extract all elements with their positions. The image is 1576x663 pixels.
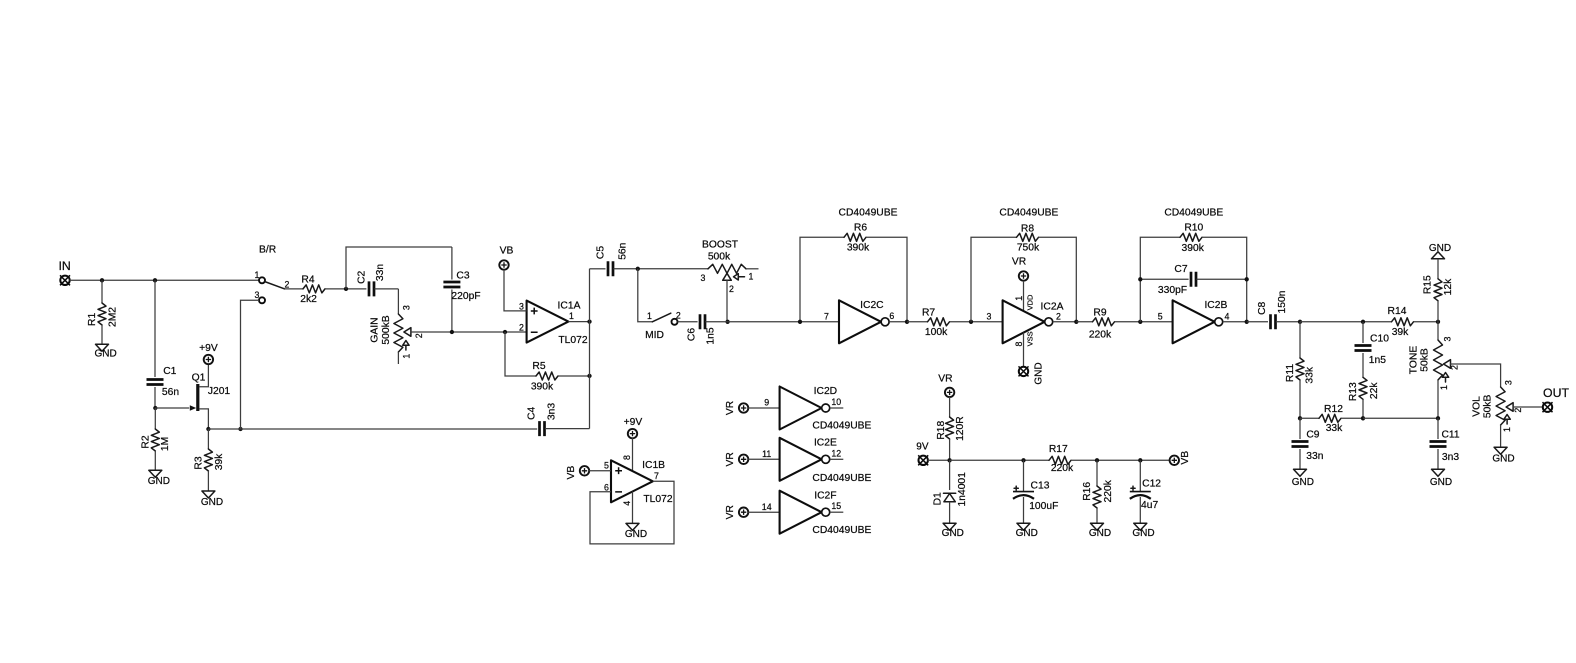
svg-text:GND: GND — [1033, 362, 1044, 384]
wire VSS — [1023, 333, 1025, 367]
svg-text:500kB: 500kB — [381, 315, 392, 344]
resistor R3 39k — [207, 429, 209, 449]
svg-text:3: 3 — [519, 302, 524, 312]
ground under C13 — [1017, 523, 1030, 530]
svg-text:120R: 120R — [955, 416, 966, 441]
ground under R16 — [1091, 523, 1104, 530]
node junction C3/wiper — [450, 330, 454, 334]
wire output riser — [589, 269, 591, 429]
potentiometer BOOST 500k — [708, 264, 746, 273]
capacitor C6 1n5 — [678, 321, 698, 323]
svg-text:39k: 39k — [214, 453, 225, 470]
svg-text:14: 14 — [762, 502, 772, 512]
svg-text:B/R: B/R — [259, 245, 276, 256]
resistor R9 220k — [1076, 321, 1092, 323]
resistor R18 120R — [946, 417, 954, 439]
ground under C12 — [1134, 523, 1147, 530]
svg-text:1n4001: 1n4001 — [957, 472, 968, 507]
capacitor C11 3n3 — [1437, 418, 1439, 439]
svg-text:2: 2 — [414, 333, 424, 338]
svg-text:500k: 500k — [708, 251, 731, 262]
node junction IC2A out — [1074, 320, 1078, 324]
node junction IC2A in — [969, 320, 973, 324]
node junction C10 top — [1361, 320, 1365, 324]
capacitor C5 56n — [608, 261, 613, 276]
node junction C12 — [1138, 458, 1142, 462]
node junction IC1A out — [587, 319, 591, 323]
svg-text:IN: IN — [58, 259, 70, 273]
wire R5 branch — [505, 332, 536, 376]
svg-text:VR: VR — [725, 401, 736, 415]
svg-text:GND: GND — [201, 497, 223, 508]
svg-text:GND: GND — [1430, 477, 1452, 488]
node junction R4/C2 — [344, 287, 348, 291]
node junction R5 right — [587, 374, 591, 378]
capacitor C7 330pF — [1140, 278, 1188, 280]
svg-text:33k: 33k — [1304, 366, 1315, 383]
svg-text:VB: VB — [1180, 451, 1191, 465]
node junction IC2B out — [1245, 320, 1249, 324]
svg-text:GND: GND — [1089, 528, 1111, 539]
wire rail to R17 — [950, 459, 1049, 461]
svg-text:J201: J201 — [208, 386, 231, 397]
svg-text:1M: 1M — [160, 437, 171, 451]
svg-text:R4: R4 — [301, 274, 314, 285]
svg-text:VOL: VOL — [1471, 396, 1482, 417]
svg-text:3n3: 3n3 — [546, 403, 557, 420]
svg-text:33n: 33n — [375, 264, 386, 281]
wire VR to IC2D — [748, 407, 779, 409]
svg-text:4: 4 — [622, 501, 632, 506]
svg-text:TL072: TL072 — [558, 335, 587, 346]
svg-text:50kB: 50kB — [1483, 395, 1494, 419]
capacitor C13 100uF — [1023, 460, 1025, 491]
switch MID — [652, 313, 671, 322]
node junction R16 — [1095, 458, 1099, 462]
svg-text:C12: C12 — [1142, 479, 1161, 490]
capacitor C8 150n — [1247, 321, 1268, 323]
svg-text:R15: R15 — [1423, 275, 1434, 294]
wire bottom tone row — [1363, 417, 1438, 419]
op-amp IC1B TL072 — [611, 460, 653, 502]
node junction B/R-3 tie — [238, 427, 242, 431]
resistor R2 1M — [154, 408, 156, 429]
node junction at R1 — [100, 278, 104, 282]
resistor R16 220k — [1096, 460, 1098, 486]
svg-text:750k: 750k — [1017, 243, 1040, 254]
svg-text:CD4049UBE: CD4049UBE — [1164, 208, 1223, 219]
svg-text:GND: GND — [942, 528, 964, 539]
svg-text:C7: C7 — [1174, 264, 1187, 275]
wire B/R throw3 riser — [241, 300, 260, 429]
svg-text:1: 1 — [569, 311, 574, 321]
svg-text:BOOST: BOOST — [702, 240, 739, 251]
svg-text:2: 2 — [729, 284, 734, 294]
inverter IC2E — [780, 438, 822, 481]
wire VR to R18 — [949, 397, 951, 417]
svg-text:1n5: 1n5 — [1369, 355, 1386, 366]
svg-text:VB: VB — [500, 245, 514, 256]
svg-text:C9: C9 — [1306, 430, 1319, 441]
node junction C7 left — [1138, 277, 1142, 281]
svg-text:3: 3 — [1504, 380, 1514, 385]
svg-text:2: 2 — [676, 310, 681, 320]
svg-text:GND: GND — [148, 476, 170, 487]
supply +9V at Q1 — [204, 355, 213, 364]
svg-text:R2: R2 — [140, 435, 151, 448]
wire feedback top line — [346, 247, 452, 289]
capacitor C9 33n — [1299, 418, 1301, 439]
capacitor C2 33n — [369, 281, 374, 296]
resistor R8 750k feedback — [971, 237, 1017, 321]
transistor Q1 J201 — [196, 384, 199, 411]
svg-text:1: 1 — [402, 354, 412, 359]
svg-text:R3: R3 — [194, 456, 205, 469]
node junction at C1 — [153, 278, 157, 282]
ground under D1 — [943, 523, 956, 530]
svg-text:IC2D: IC2D — [814, 386, 837, 397]
svg-text:2: 2 — [1056, 311, 1061, 321]
node junction tone top — [1436, 320, 1440, 324]
potentiometer TONE 50kB — [1437, 322, 1439, 340]
svg-text:+9V: +9V — [624, 417, 643, 428]
wire VB to pin3 — [504, 270, 527, 311]
node junction IC2C out — [905, 320, 909, 324]
svg-text:IC2C: IC2C — [860, 300, 884, 311]
wire to C5 — [590, 268, 606, 270]
svg-text:220k: 220k — [1089, 329, 1112, 340]
node VB port right — [1170, 456, 1179, 465]
wire 9V to rail — [928, 459, 950, 461]
svg-text:C4: C4 — [527, 406, 538, 419]
wire VOL wiper to OUT — [1513, 406, 1544, 408]
wire lever to R4 — [285, 288, 303, 290]
svg-text:2: 2 — [285, 280, 290, 290]
wire C2 to GAIN — [397, 289, 399, 314]
resistor R13 22k — [1359, 377, 1367, 399]
svg-text:100k: 100k — [925, 327, 948, 338]
svg-text:R14: R14 — [1388, 306, 1407, 317]
svg-text:220k: 220k — [1103, 479, 1114, 502]
svg-text:390k: 390k — [847, 243, 870, 254]
svg-text:3: 3 — [402, 305, 412, 310]
svg-text:IC2B: IC2B — [1204, 300, 1227, 311]
svg-text:CD4049UBE: CD4049UBE — [812, 421, 871, 432]
wire GAIN wiper row — [410, 331, 526, 333]
svg-text:R12: R12 — [1324, 404, 1343, 415]
svg-text:220pF: 220pF — [451, 291, 480, 302]
svg-text:D1: D1 — [933, 492, 944, 505]
node junction 9V/D1 — [947, 458, 951, 462]
svg-text:100uF: 100uF — [1029, 501, 1058, 512]
svg-text:8: 8 — [1014, 341, 1024, 346]
svg-text:4: 4 — [1224, 311, 1229, 321]
svg-text:MID: MID — [645, 330, 664, 341]
svg-text:R11: R11 — [1285, 364, 1296, 382]
svg-text:VDD: VDD — [1025, 294, 1034, 310]
svg-text:GND: GND — [625, 529, 647, 540]
svg-text:C11: C11 — [1441, 429, 1459, 440]
svg-text:VR: VR — [725, 452, 736, 466]
svg-text:C8: C8 — [1257, 301, 1268, 314]
wire IC1B feedback box — [590, 481, 674, 544]
wire IC1A output — [568, 321, 589, 323]
svg-text:2M2: 2M2 — [108, 307, 119, 327]
ground pad at IC2A — [1019, 367, 1028, 376]
svg-text:330pF: 330pF — [1158, 285, 1187, 296]
svg-text:9: 9 — [764, 398, 769, 408]
resistor R15 12k — [1437, 259, 1439, 279]
node junction C7 right — [1245, 277, 1249, 281]
svg-text:IC2A: IC2A — [1041, 302, 1064, 313]
svg-text:R18: R18 — [936, 420, 947, 439]
svg-text:5: 5 — [1158, 311, 1163, 321]
node junction gate — [153, 406, 157, 410]
svg-text:R1: R1 — [87, 313, 98, 326]
resistor R11 33k — [1299, 322, 1301, 358]
svg-text:50kB: 50kB — [1420, 348, 1431, 372]
node junction BOOST wiper — [725, 320, 729, 324]
node junction R13 bottom — [1361, 416, 1365, 420]
node junction C8 right — [1298, 320, 1302, 324]
svg-text:VR: VR — [725, 505, 736, 519]
svg-text:R9: R9 — [1093, 307, 1106, 318]
supply +9V at IC1B — [628, 429, 637, 438]
svg-text:GND: GND — [1016, 528, 1038, 539]
svg-text:7: 7 — [654, 471, 659, 481]
resistor R1 2M2 — [101, 280, 103, 303]
node junction R11 bottom — [1298, 416, 1302, 420]
svg-text:2: 2 — [1513, 408, 1523, 413]
svg-text:1: 1 — [749, 272, 754, 282]
svg-text:390k: 390k — [531, 382, 554, 393]
capacitor C3 220pF — [451, 247, 453, 280]
svg-text:CD4049UBE: CD4049UBE — [839, 207, 898, 218]
svg-text:56n: 56n — [617, 242, 628, 259]
inverter IC2C — [839, 300, 881, 343]
resistor R4 2k2 — [303, 285, 325, 293]
resistor R7 100k — [907, 321, 928, 323]
node junction inverting input — [503, 330, 507, 334]
svg-text:2k2: 2k2 — [300, 294, 317, 305]
wire VB to pin5 — [589, 470, 611, 472]
wire IN row — [69, 279, 259, 281]
svg-text:6: 6 — [889, 311, 894, 321]
svg-text:IC2F: IC2F — [814, 490, 836, 501]
svg-text:GAIN: GAIN — [370, 317, 381, 342]
svg-text:5: 5 — [604, 461, 609, 471]
node junction IC2C in — [798, 320, 802, 324]
node junction IC2B in — [1138, 320, 1142, 324]
wire top right row — [1300, 321, 1392, 323]
svg-text:CD4049UBE: CD4049UBE — [999, 208, 1058, 219]
svg-text:C10: C10 — [1370, 334, 1389, 345]
svg-text:3: 3 — [701, 273, 706, 283]
svg-text:CD4049UBE: CD4049UBE — [812, 473, 871, 484]
inverter IC2D — [780, 387, 822, 430]
ground above R15 — [1432, 252, 1445, 259]
ground under R1 — [96, 344, 109, 351]
svg-text:12k: 12k — [1443, 278, 1454, 295]
svg-text:15: 15 — [831, 501, 841, 511]
svg-text:VR: VR — [1012, 257, 1026, 268]
svg-text:8: 8 — [622, 455, 632, 460]
svg-text:+9V: +9V — [199, 343, 218, 354]
svg-text:150n: 150n — [1277, 290, 1288, 313]
wire pin4 — [632, 492, 634, 524]
svg-text:R16: R16 — [1082, 482, 1093, 501]
resistor R10 390k feedback — [1140, 237, 1180, 321]
capacitor C12 4u7 — [1139, 460, 1141, 491]
svg-text:TONE: TONE — [1408, 346, 1419, 375]
svg-text:4u7: 4u7 — [1141, 500, 1158, 511]
svg-text:7: 7 — [824, 311, 829, 321]
svg-text:R13: R13 — [1348, 382, 1359, 401]
svg-text:GND: GND — [1132, 528, 1154, 539]
svg-text:220k: 220k — [1051, 463, 1074, 474]
wire source row — [208, 428, 537, 430]
svg-text:IC1A: IC1A — [558, 301, 581, 312]
ground under VOL — [1494, 447, 1507, 454]
wire gate — [155, 407, 189, 409]
ground under C11 — [1432, 469, 1445, 476]
svg-text:GND: GND — [1292, 477, 1314, 488]
svg-text:1: 1 — [255, 270, 260, 280]
svg-text:33k: 33k — [1326, 423, 1343, 434]
node junction tone bottom — [1436, 416, 1440, 420]
svg-text:22k: 22k — [1369, 382, 1380, 399]
node junction C5 right — [636, 267, 640, 271]
wire MID drop — [638, 269, 653, 322]
svg-text:CD4049UBE: CD4049UBE — [812, 525, 871, 536]
wire VDD — [1023, 281, 1025, 312]
node IN port — [60, 276, 69, 285]
svg-text:R5: R5 — [532, 361, 545, 372]
resistor R17 220k — [1049, 456, 1071, 464]
inverter IC2F — [780, 491, 822, 534]
diode D1 1n4001 — [949, 460, 951, 490]
ground under R3 — [202, 491, 215, 498]
potentiometer VOL 50kB — [1496, 387, 1505, 425]
wire VR to IC2F — [748, 511, 779, 513]
svg-text:C1: C1 — [163, 366, 176, 377]
resistor R12 33k — [1300, 417, 1319, 419]
supply VB at IC1A — [499, 260, 508, 269]
svg-text:9V: 9V — [916, 441, 929, 452]
node junction source — [206, 427, 210, 431]
svg-text:OUT: OUT — [1543, 386, 1569, 400]
svg-text:C6: C6 — [687, 328, 698, 341]
svg-text:1: 1 — [1439, 385, 1449, 390]
svg-text:1: 1 — [647, 311, 652, 321]
svg-text:R8: R8 — [1021, 223, 1034, 234]
svg-text:VSS: VSS — [1025, 331, 1034, 346]
svg-text:C2: C2 — [357, 270, 368, 283]
svg-text:C5: C5 — [595, 246, 606, 259]
op-amp IC1A TL072 — [527, 301, 569, 343]
svg-text:2: 2 — [1450, 365, 1460, 370]
svg-text:TL072: TL072 — [643, 494, 672, 505]
node OUT port — [1543, 403, 1552, 412]
svg-text:Q1: Q1 — [192, 373, 206, 384]
svg-text:GND: GND — [1429, 243, 1451, 254]
svg-text:GND: GND — [94, 349, 116, 360]
svg-text:1: 1 — [1502, 427, 1512, 432]
svg-text:R6: R6 — [854, 223, 867, 234]
svg-text:R17: R17 — [1049, 444, 1068, 455]
svg-text:33n: 33n — [1306, 451, 1323, 462]
svg-text:3: 3 — [1443, 336, 1453, 341]
wire VR to IC2E — [748, 458, 779, 460]
svg-text:IC2E: IC2E — [814, 438, 837, 449]
svg-text:R7: R7 — [922, 307, 935, 318]
capacitor C1 56n — [154, 280, 156, 377]
resistor R5 390k — [536, 372, 558, 380]
svg-text:1n5: 1n5 — [706, 327, 717, 344]
svg-text:2: 2 — [519, 323, 524, 333]
capacitor C4 3n3 — [540, 421, 545, 436]
capacitor C10 1n5 — [1362, 322, 1364, 343]
svg-text:1: 1 — [1014, 296, 1024, 301]
svg-text:56n: 56n — [162, 387, 179, 398]
inverter IC2A — [1003, 300, 1045, 343]
wire pin8 — [632, 438, 634, 471]
svg-text:R10: R10 — [1184, 223, 1203, 234]
svg-text:VB: VB — [566, 466, 577, 480]
svg-text:GND: GND — [1492, 453, 1514, 464]
svg-text:3: 3 — [987, 311, 992, 321]
svg-text:39k: 39k — [1392, 327, 1409, 338]
svg-text:10: 10 — [831, 397, 841, 407]
ground under C9 — [1294, 469, 1307, 476]
svg-text:3: 3 — [255, 290, 260, 300]
wire TONE wiper to VOL — [1450, 364, 1501, 387]
svg-text:C13: C13 — [1031, 481, 1050, 492]
svg-text:6: 6 — [604, 483, 609, 493]
svg-text:390k: 390k — [1182, 243, 1205, 254]
inverter IC2B — [1173, 300, 1215, 343]
node junction C13 — [1021, 458, 1025, 462]
potentiometer GAIN 500kB — [394, 314, 403, 352]
svg-text:VR: VR — [938, 374, 952, 385]
ground under IC1B — [626, 523, 639, 530]
svg-text:C3: C3 — [456, 271, 469, 282]
ground under R2 — [149, 470, 162, 477]
svg-text:IC1B: IC1B — [642, 460, 665, 471]
resistor R6 390k feedback — [800, 237, 844, 321]
svg-text:11: 11 — [762, 449, 771, 459]
svg-text:3n3: 3n3 — [1442, 452, 1459, 463]
resistor R14 39k — [1392, 318, 1414, 326]
svg-text:12: 12 — [831, 448, 841, 458]
